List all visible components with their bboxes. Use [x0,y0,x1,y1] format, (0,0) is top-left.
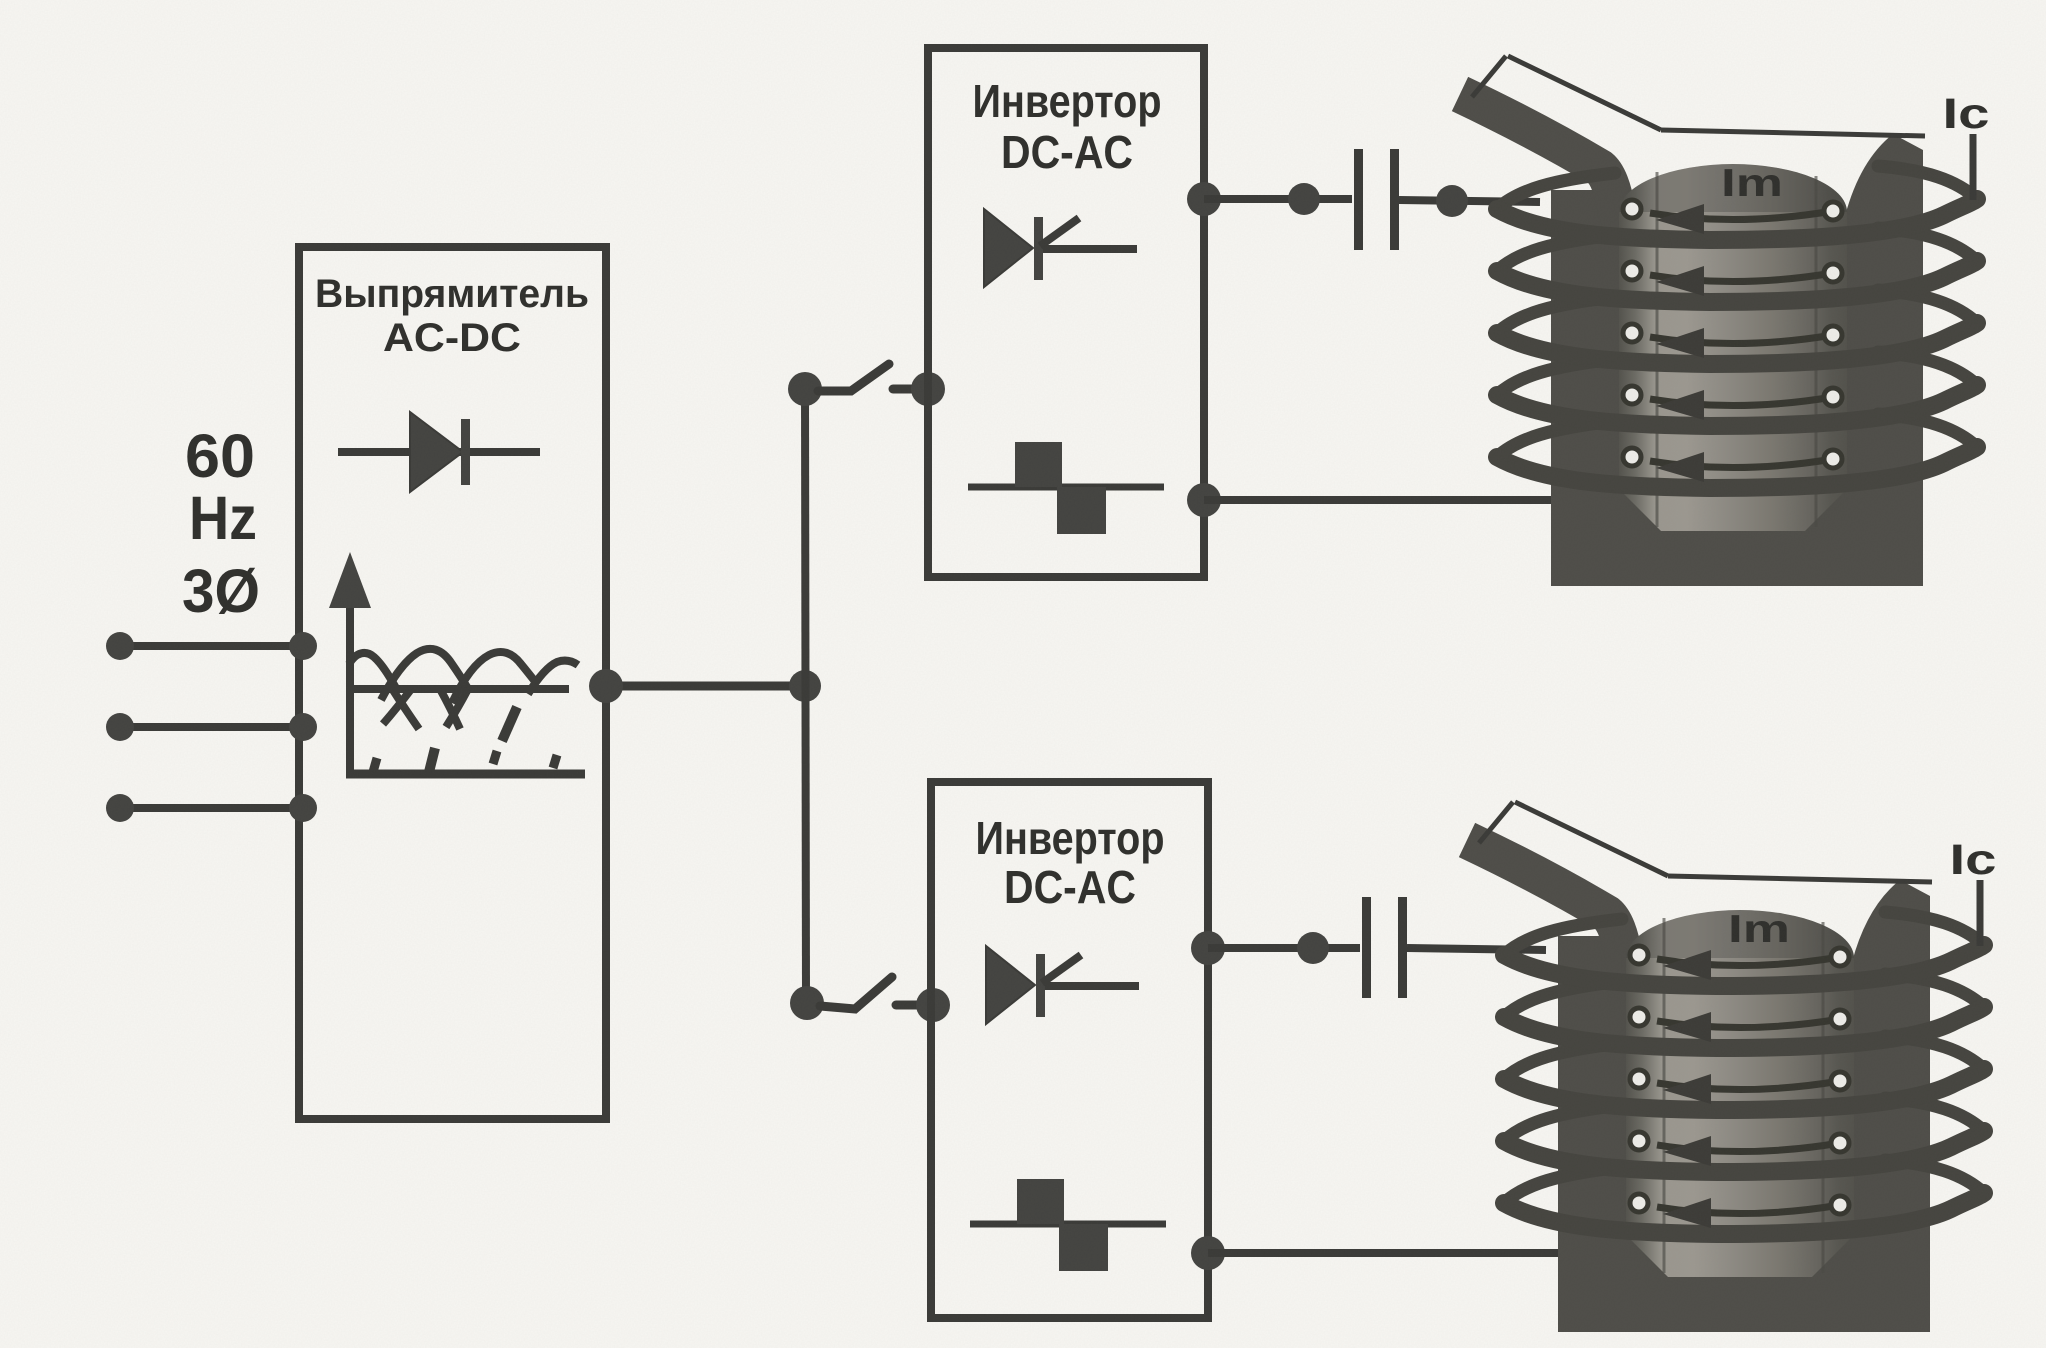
node on DC bus [789,670,821,702]
square wave symbol inverter 1 [968,442,1164,534]
phase wire L2 [120,723,303,731]
eddy current arrows Im [1630,946,1849,1228]
switch S1 (to top inverter) [788,372,822,406]
terminal dot L1 [106,632,134,660]
diode D1 inside rectifier [338,412,540,492]
induction coil back turns [1504,912,1984,1203]
thyristor symbol Q1 [984,209,1137,287]
sine humps [349,653,397,690]
wire inverter1 bottom to coil [1204,496,1560,504]
coil lead Ic [1970,134,1977,200]
phase wire L3 [120,804,303,812]
furnace body crucible [1558,958,1930,1332]
wire C2 to coil [1407,948,1546,950]
node inverter1 top output [1187,182,1221,216]
junction node L1 on box edge [289,632,317,660]
induction coil back turns [1497,166,1977,457]
vertical DC bus wire [805,389,806,1003]
inverter box 1 (Инвертор DC-AC) [928,48,1204,577]
switch S2 (to bottom inverter) [790,986,824,1020]
node inverter2 bottom output [1191,1236,1225,1270]
melt (charge) cylinder [1626,910,1854,1277]
capacitor C2 [1362,897,1371,998]
wire inverter2 bottom to coil [1208,1249,1566,1257]
induction coil front turns [1497,199,1977,488]
vertical axis with arrow [346,600,354,777]
inverter box 2 (Инвертор DC-AC) [931,782,1208,1318]
capacitor C1 [1354,149,1363,250]
pouring spout wall [1467,840,1629,1046]
below-line tails [391,687,419,729]
junction node L3 on box edge [289,794,317,822]
furnace rim line [1661,130,1925,136]
coil lead Ic [1977,880,1984,946]
zero line [350,685,569,693]
node inverter2 top output [1191,931,1225,965]
node before C2 [1297,932,1329,964]
wire rectifier output [606,682,805,691]
square wave symbol inverter 2 [970,1179,1166,1271]
melt (charge) cylinder [1619,164,1847,531]
node before C1 [1288,183,1320,215]
terminal dot L2 [106,713,134,741]
furnace body crucible [1551,212,1923,586]
bottom axis [346,770,585,779]
phase wire L1 [120,642,303,650]
thyristor symbol Q2 [986,946,1139,1024]
axis ticks [373,758,377,772]
terminal dot L3 [106,794,134,822]
furnace rim line [1668,876,1932,882]
pouring spout wall [1460,94,1622,300]
wire C1 to coil [1399,200,1540,202]
node on rectifier border [589,669,623,703]
junction node L2 on box edge [289,713,317,741]
induction coil front turns [1504,945,1984,1234]
wire inverter1 to capacitor C1 [1204,195,1352,203]
right wall horn [1852,880,1930,962]
spout outline [1515,802,1668,876]
wire inverter2 to capacitor C2 [1208,944,1360,952]
node inverter1 bottom output [1187,483,1221,517]
rectified waveform plot [329,552,585,777]
eddy current arrows Im [1623,200,1842,482]
spout outline [1508,56,1661,130]
dashed tail [502,707,517,741]
right wall horn [1845,134,1923,216]
rectifier box (Выпрямитель AC-DC) [299,247,606,1119]
node after C1 [1436,185,1468,217]
